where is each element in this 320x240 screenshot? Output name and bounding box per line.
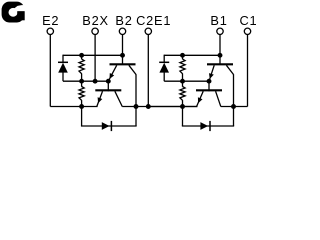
wire collector lead C2E1 column bbox=[147, 35, 149, 107]
transistor Q11 driver collector bbox=[226, 65, 233, 74]
diode FWD1 freewheel cathode bar bbox=[209, 121, 211, 131]
diode FWD2 freewheel cathode bar bbox=[110, 121, 112, 131]
wire diode stub 1 bbox=[163, 55, 165, 63]
logo letter G bbox=[2, 2, 26, 23]
node emitter/freewheel junction 2 bbox=[79, 104, 84, 109]
transistor Q21 driver base bar bbox=[110, 63, 136, 65]
node rail B aux-base junction 2 bbox=[93, 79, 98, 84]
diode D2 anti-saturation body bbox=[58, 63, 68, 73]
transistor Q12 output base bar bbox=[196, 89, 222, 91]
resistor R12 bbox=[180, 87, 185, 101]
wire B2X auxiliary base lead bbox=[94, 35, 96, 82]
svg-text:B2X: B2X bbox=[82, 13, 109, 28]
wire rail B output-base rail 1 bbox=[164, 80, 209, 82]
svg-text:B2: B2 bbox=[115, 13, 132, 28]
diode FWD1 freewheel body bbox=[200, 122, 208, 130]
wire diode anode lead 1 bbox=[163, 72, 165, 81]
wire freewheel loop bottom 1 bbox=[182, 125, 234, 127]
transistor Q12 output emitter bbox=[197, 91, 204, 106]
node rail B resistor tap 2 bbox=[79, 79, 84, 84]
transistor Q22 output base bar bbox=[95, 89, 121, 91]
transistor Q22 output collector bbox=[115, 91, 122, 106]
node rail B driver-emitter junction 2 bbox=[106, 79, 111, 84]
transistor Q21 driver emitter bbox=[108, 65, 116, 81]
node rail A base junction 2 bbox=[120, 53, 125, 58]
wire freewheel loop right 2 bbox=[135, 107, 137, 127]
wire bottom collector rail 1 bbox=[221, 106, 248, 108]
wire collector lead C1 column bbox=[247, 35, 249, 107]
node rail A base junction 1 bbox=[218, 53, 223, 58]
transistor Q12 output collector bbox=[216, 91, 221, 106]
transistor Q21 driver collector bbox=[129, 65, 136, 74]
transistor Q22 output emitter bbox=[97, 91, 103, 106]
svg-text:E2: E2 bbox=[42, 13, 59, 28]
node collector rail C2E1 junction bbox=[146, 104, 151, 109]
node collector rail / freewheel junction 1 bbox=[231, 104, 236, 109]
wire bottom emitter rail 2 bbox=[50, 106, 97, 108]
diode D2 anti-saturation cathode bar bbox=[58, 61, 68, 63]
svg-text:B1: B1 bbox=[210, 13, 227, 28]
diode D1 anti-saturation body bbox=[159, 63, 169, 73]
resistor R21 bbox=[79, 59, 84, 74]
wire diode stub 2 bbox=[62, 55, 64, 63]
wire output base lead 2 bbox=[107, 81, 109, 91]
transistor Q11 driver emitter bbox=[209, 65, 214, 81]
terminal E2 bbox=[47, 28, 53, 34]
terminal B1 bbox=[217, 28, 223, 34]
wire bottom collector rail 2 bbox=[122, 106, 197, 108]
wire driver base lead B2 bbox=[122, 35, 124, 65]
wire driver base lead B1 bbox=[219, 35, 221, 65]
node rail B driver-emitter junction 1 bbox=[207, 79, 212, 84]
svg-text:C2E1: C2E1 bbox=[136, 13, 171, 28]
wire bottom emitter rail 1 bbox=[148, 106, 197, 108]
terminal B2X bbox=[92, 28, 98, 34]
diode D1 anti-saturation cathode bar bbox=[159, 61, 169, 63]
wire emitter lead E2 column bbox=[49, 35, 51, 107]
terminal B2 bbox=[119, 28, 125, 34]
wire rail A driver-base rail 1 bbox=[164, 54, 220, 56]
wire output base lead 1 bbox=[208, 81, 210, 91]
wire rail A driver-base rail 2 bbox=[63, 54, 123, 56]
transistor Q11 driver base bar bbox=[207, 63, 233, 65]
wire rail B output-base rail 2 bbox=[63, 80, 108, 82]
diode FWD2 freewheel body bbox=[102, 122, 110, 130]
wire diode anode lead 2 bbox=[62, 72, 64, 81]
node rail A resistor tap 1 bbox=[180, 53, 185, 58]
node rail B resistor tap 1 bbox=[180, 79, 185, 84]
resistor R11 bbox=[180, 59, 185, 74]
node collector rail / freewheel junction 2 bbox=[134, 104, 139, 109]
wire freewheel loop left 1 bbox=[182, 107, 184, 127]
resistor R22 bbox=[79, 87, 84, 101]
node rail A resistor tap 2 bbox=[79, 53, 84, 58]
svg-text:C1: C1 bbox=[240, 13, 258, 28]
wire freewheel loop right 1 bbox=[233, 107, 235, 127]
terminal C2E1 bbox=[145, 28, 151, 34]
wire freewheel loop left 2 bbox=[81, 107, 83, 127]
wire freewheel loop bottom 2 bbox=[81, 125, 137, 127]
node emitter/freewheel junction 1 bbox=[180, 104, 185, 109]
terminal C1 bbox=[244, 28, 250, 34]
